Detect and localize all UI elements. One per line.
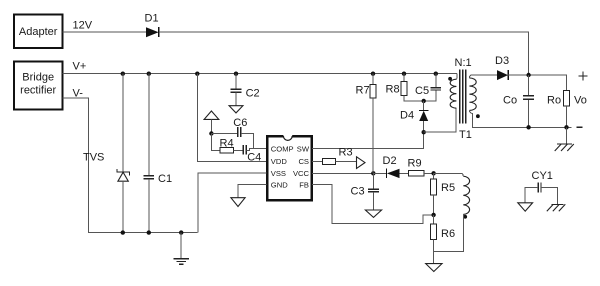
svg-text:R3: R3 xyxy=(339,147,353,159)
wire SW pin to D4 anode node xyxy=(312,132,424,149)
ground earth symbol xyxy=(173,259,189,265)
wire secondary bottom rail xyxy=(469,110,571,127)
svg-text:D3: D3 xyxy=(495,55,509,67)
node primary phase dot xyxy=(448,77,452,81)
power arrow up (COMP network) xyxy=(204,111,219,119)
wire R6 top xyxy=(433,215,435,224)
diode D2 xyxy=(373,155,399,178)
svg-text:VDD: VDD xyxy=(271,157,288,166)
inductor aux winding xyxy=(463,176,469,214)
wire R3 to arrow xyxy=(335,160,356,162)
wire D4 node to primary bottom xyxy=(424,108,457,132)
svg-text:R6: R6 xyxy=(441,228,455,240)
resistor Ro xyxy=(547,90,570,106)
node output top junction xyxy=(526,73,530,77)
capacitor CY1 xyxy=(538,183,541,193)
diode D4 xyxy=(400,101,429,122)
wire R6 bottom to ground xyxy=(433,240,435,264)
svg-text:12V: 12V xyxy=(73,20,93,32)
wire R4 to C4 xyxy=(234,149,244,151)
resistor R6 xyxy=(431,224,455,240)
svg-text:C4: C4 xyxy=(247,152,261,164)
node V+ TVS junction xyxy=(121,72,125,76)
node FB divider junction xyxy=(431,213,435,217)
capacitor C3 xyxy=(351,186,380,198)
wire secondary top to D3 xyxy=(469,75,497,78)
svg-text:R4: R4 xyxy=(220,138,234,150)
chassis ground CY1 xyxy=(547,204,566,211)
wire R7 bottom to VCC node xyxy=(372,98,374,173)
capacitor Co xyxy=(503,95,534,107)
svg-text:D1: D1 xyxy=(145,13,159,25)
wire power arrow to node xyxy=(210,119,212,133)
wire Co top xyxy=(528,75,530,95)
node C5 top V+ xyxy=(434,72,438,76)
label plus xyxy=(579,72,588,81)
wire C6 right to COMP xyxy=(241,134,254,149)
node V+ VDD junction xyxy=(195,72,199,76)
wire D4 anode xyxy=(423,121,425,132)
node Co bottom xyxy=(526,125,530,129)
wire VCC pin to node xyxy=(312,172,373,174)
capacitor C2 xyxy=(230,88,259,100)
wire aux winding bottom return xyxy=(434,214,464,251)
diode D3 xyxy=(495,55,509,80)
node D4 anode SW junction xyxy=(422,130,426,134)
svg-text:TVS: TVS xyxy=(83,152,104,164)
wire D2 to R9 xyxy=(400,172,409,174)
svg-text:Ro: Ro xyxy=(547,95,561,107)
node V+ C2 junction xyxy=(234,72,238,76)
node D4 cathode junction xyxy=(422,99,426,103)
resistor R9 xyxy=(408,158,424,177)
node VCC junction xyxy=(371,171,375,175)
wire ground stub xyxy=(180,233,182,259)
svg-text:R7: R7 xyxy=(356,85,370,97)
wire V+ rail xyxy=(63,73,457,75)
svg-text:C5: C5 xyxy=(415,85,429,97)
wire TVS bottom xyxy=(122,181,124,232)
wire 12V net xyxy=(63,31,147,33)
wire R8 bottom to D4 cathode xyxy=(404,96,424,101)
wire C5 bottom to D4 cathode xyxy=(424,90,436,101)
Adapter box xyxy=(14,15,63,49)
op-amp U1 controller IC body xyxy=(267,136,312,200)
wire FB pin to divider xyxy=(312,185,434,224)
wire V+ rail into primary top xyxy=(455,74,458,80)
node Ro bottom xyxy=(564,125,568,129)
capacitor C1 xyxy=(144,173,172,185)
svg-text:COMP: COMP xyxy=(271,145,294,154)
wire C1 top xyxy=(148,74,150,176)
svg-text:CS: CS xyxy=(298,157,309,166)
resistor R8 xyxy=(386,82,408,96)
svg-text:V+: V+ xyxy=(73,61,87,73)
node R5 top junction xyxy=(431,171,435,175)
wire CY1 left xyxy=(525,188,538,203)
node ground stub junction xyxy=(179,230,183,234)
capacitor C6 xyxy=(233,117,247,137)
Bridge rectifier box xyxy=(14,61,63,109)
wire CS pin xyxy=(312,160,322,162)
wire C6 left xyxy=(211,133,237,135)
wire output ground stub xyxy=(566,127,568,144)
svg-text:Adapter: Adapter xyxy=(19,26,58,38)
diode D1 xyxy=(145,13,159,38)
svg-text:CY1: CY1 xyxy=(532,170,553,182)
wire R5 top xyxy=(433,173,435,179)
svg-text:SW: SW xyxy=(297,145,310,154)
svg-text:C3: C3 xyxy=(351,186,365,198)
svg-text:C1: C1 xyxy=(158,173,172,185)
resistor R5 xyxy=(431,179,455,195)
svg-text:N:1: N:1 xyxy=(455,57,472,69)
ground arrow under C3 xyxy=(365,210,381,217)
svg-text:T1: T1 xyxy=(459,129,472,141)
wire VDD from V+ xyxy=(197,74,266,162)
svg-text:R9: R9 xyxy=(408,158,422,170)
svg-text:VCC: VCC xyxy=(293,169,310,178)
wire R8 top xyxy=(403,74,405,82)
wire TVS top xyxy=(122,74,124,172)
transformer T1 secondary winding xyxy=(469,78,476,111)
wire C3 bottom xyxy=(372,192,374,210)
svg-text:C2: C2 xyxy=(246,88,260,100)
node V+ C1 junction xyxy=(147,72,151,76)
svg-text:R5: R5 xyxy=(441,182,455,194)
ground arrow under C2 xyxy=(229,106,243,113)
ground arrow under R6 xyxy=(426,264,442,272)
wire 12V net to output node xyxy=(159,32,529,75)
svg-text:Bridge: Bridge xyxy=(22,72,54,84)
wire node down to R4 xyxy=(211,134,219,151)
svg-text:FB: FB xyxy=(299,181,309,190)
node R7 top V+ xyxy=(371,72,375,76)
wire R5 bottom to FB node xyxy=(433,195,435,215)
resistor R4 xyxy=(220,138,234,154)
svg-text:C6: C6 xyxy=(233,117,247,129)
svg-text:D2: D2 xyxy=(383,155,397,167)
ground arrow CY1 xyxy=(518,203,533,211)
wire R9 to R5 node xyxy=(424,172,434,174)
node TVS bottom rail xyxy=(121,230,125,234)
wire Ro bottom xyxy=(566,106,568,128)
transformer core xyxy=(460,70,466,124)
wire V- to bottom rail xyxy=(63,98,198,233)
TVS zener diode xyxy=(83,152,129,182)
capacitor C5 xyxy=(415,85,441,97)
wire aux winding top xyxy=(434,173,464,176)
resistor R3 xyxy=(322,147,352,165)
wire C5 top xyxy=(435,74,437,88)
wire C3 top xyxy=(372,173,374,189)
transformer T1 primary winding xyxy=(450,79,456,108)
svg-text:VSS: VSS xyxy=(271,169,286,178)
wire C2 bottom xyxy=(235,93,237,106)
svg-text:rectifier: rectifier xyxy=(20,85,56,97)
wire VSS to bottom rail xyxy=(198,173,266,233)
wire R7 top xyxy=(372,74,374,85)
resistor R7 xyxy=(356,85,377,99)
wire D3 cathode to output xyxy=(508,75,566,90)
chassis ground output xyxy=(555,144,574,151)
label minus xyxy=(576,126,582,128)
node COMP network junction xyxy=(209,131,213,135)
svg-text:Co: Co xyxy=(503,95,517,107)
wire C4 to COMP pin xyxy=(247,149,267,151)
ground arrow under GND pin xyxy=(231,198,245,207)
arrow marker CS sense xyxy=(357,157,366,169)
wire C1 bottom xyxy=(148,179,150,233)
wire Co bottom xyxy=(528,100,530,128)
node R8 top V+ xyxy=(402,72,406,76)
svg-text:GND: GND xyxy=(271,181,288,190)
svg-text:R8: R8 xyxy=(386,84,400,96)
capacitor C4 xyxy=(243,145,261,164)
node aux phase dot xyxy=(463,215,467,219)
node secondary phase dot xyxy=(476,114,480,118)
node C1 bottom rail xyxy=(147,230,151,234)
wire CY1 right xyxy=(541,188,558,205)
wire GND pin xyxy=(238,185,267,198)
wire C2 top xyxy=(235,74,237,89)
svg-text:Vo: Vo xyxy=(574,95,587,107)
svg-text:D4: D4 xyxy=(400,110,414,122)
